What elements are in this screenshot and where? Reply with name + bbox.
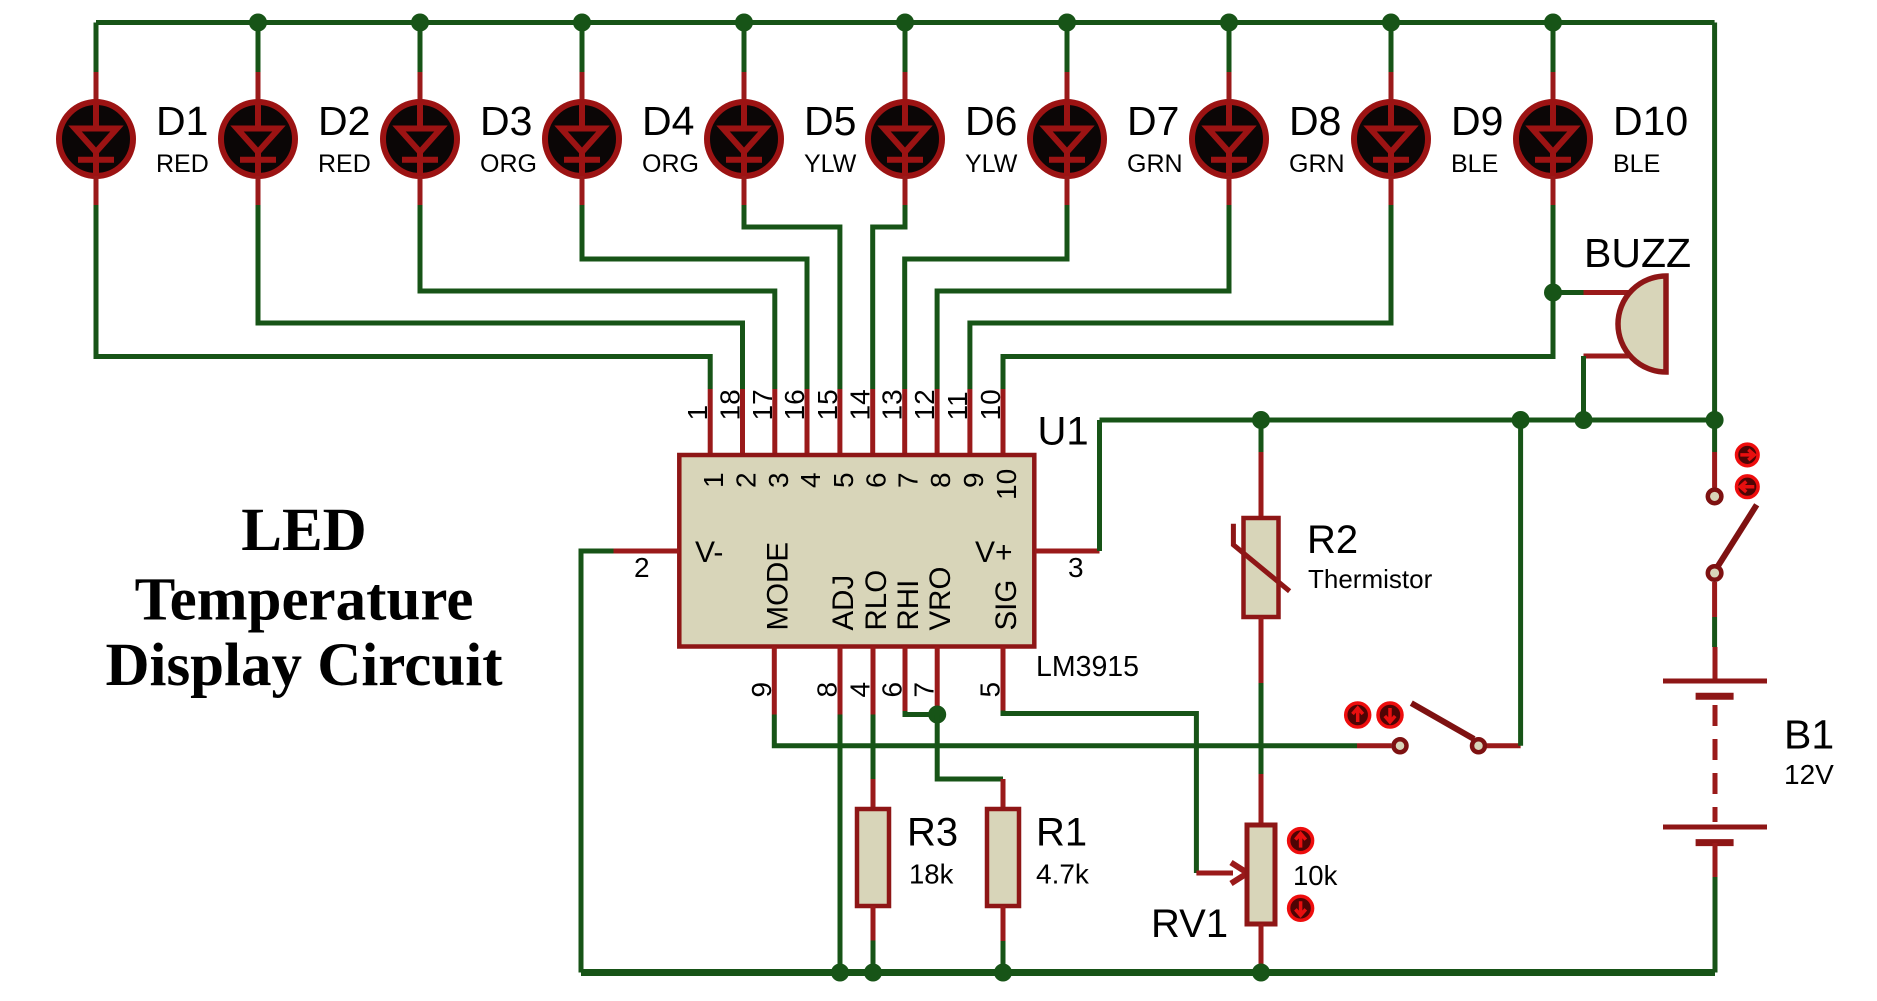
wire buzzer top pin — [1553, 290, 1632, 295]
junction V+ bus / R2 — [1252, 411, 1270, 429]
junction bus / D6 — [896, 14, 914, 32]
pin V+ (3) stub — [1035, 549, 1100, 554]
thermistor R2 — [1233, 518, 1289, 617]
svg-text:9: 9 — [746, 682, 777, 698]
svg-text:LED: LED — [241, 497, 366, 564]
pin RLO (4) stub — [871, 646, 876, 714]
svg-text:12V: 12V — [1784, 759, 1834, 790]
wire R3 to ground rail — [871, 906, 876, 973]
svg-text:RV1: RV1 — [1151, 902, 1228, 946]
wire LED D9 cathode to IC pin — [970, 176, 1391, 456]
RV1 up button — [1289, 829, 1313, 853]
svg-text:LM3915: LM3915 — [1036, 651, 1139, 683]
junction V+ bus / right rail — [1706, 411, 1724, 429]
svg-text:4: 4 — [845, 682, 876, 698]
svg-text:RED: RED — [156, 150, 209, 178]
junction bus / D8 — [1220, 14, 1238, 32]
LED D1 (RED) — [59, 101, 133, 177]
buzzer BUZZ — [1618, 276, 1666, 372]
wire LED D4 anode from bus — [580, 23, 585, 104]
junction RHI-VRO — [928, 706, 946, 724]
svg-text:R3: R3 — [907, 811, 958, 855]
svg-text:RLO: RLO — [860, 570, 893, 631]
wire right rail from top bus — [1712, 23, 1717, 453]
wire V+ bus to R2 — [1259, 420, 1264, 519]
junction bus / D2 — [249, 14, 267, 32]
svg-text:4.7k: 4.7k — [1036, 859, 1090, 890]
svg-text:ORG: ORG — [480, 150, 537, 178]
svg-text:11: 11 — [942, 391, 973, 420]
svg-text:R2: R2 — [1307, 518, 1358, 562]
svg-text:VRO: VRO — [924, 567, 957, 631]
svg-text:V-: V- — [695, 536, 723, 569]
wire LED D6 cathode to IC pin — [873, 176, 905, 456]
junction bus / D3 — [411, 14, 429, 32]
svg-text:10: 10 — [991, 469, 1022, 500]
wire LED D5 cathode to IC pin — [744, 176, 840, 456]
svg-text:14: 14 — [845, 389, 876, 420]
wire SW1 to battery — [1712, 617, 1717, 681]
wire LED D1 anode from bus — [94, 23, 99, 104]
svg-text:12: 12 — [909, 389, 940, 420]
svg-text:1: 1 — [698, 472, 729, 488]
junction bus / D10 — [1544, 14, 1562, 32]
LED D6 (YLW) — [868, 101, 942, 177]
junction V+ bus / switch riser — [1512, 411, 1530, 429]
switch SW2 up button — [1346, 703, 1370, 727]
battery B1 — [1663, 681, 1767, 877]
junction rail / R1 — [994, 964, 1012, 982]
LED D3 (ORG) — [383, 101, 457, 177]
svg-text:D2: D2 — [318, 98, 370, 144]
wire LED D6 anode from bus — [903, 23, 908, 104]
svg-text:10k: 10k — [1293, 860, 1338, 891]
junction rail / R3 — [864, 964, 882, 982]
potentiometer RV1 — [1247, 825, 1275, 924]
wire R2 to RV1 — [1259, 617, 1264, 826]
LED D4 (ORG) — [545, 101, 619, 177]
svg-text:Display Circuit: Display Circuit — [105, 632, 503, 699]
LED D9 (BLE) — [1354, 101, 1428, 177]
LED D5 (YLW) — [707, 101, 781, 177]
svg-text:D8: D8 — [1289, 98, 1341, 144]
svg-text:6: 6 — [861, 472, 892, 488]
svg-text:16: 16 — [779, 389, 810, 420]
wire LED D8 cathode to IC pin — [937, 176, 1229, 456]
junction bus / D9 — [1382, 14, 1400, 32]
LED D7 (GRN) — [1030, 101, 1104, 177]
wire buzzer bottom pin — [1584, 356, 1633, 420]
svg-text:3: 3 — [763, 472, 794, 488]
wire ADJ to ground rail — [838, 715, 843, 973]
svg-text:RED: RED — [318, 150, 371, 178]
junction bus / D5 — [735, 14, 753, 32]
svg-text:D6: D6 — [965, 98, 1017, 144]
junction bus / D4 — [573, 14, 591, 32]
svg-text:BUZZ: BUZZ — [1584, 230, 1691, 276]
svg-text:9: 9 — [958, 472, 989, 488]
svg-text:8: 8 — [812, 682, 843, 698]
wire MODE to switch — [774, 715, 1391, 746]
LED D2 (RED) — [221, 101, 295, 177]
LED D8 (GRN) — [1192, 101, 1266, 177]
wire V+ horizontal bus — [1100, 418, 1715, 423]
switch SW2 (mode select) — [1394, 703, 1486, 752]
wire LED D8 anode from bus — [1227, 23, 1232, 104]
svg-text:18k: 18k — [909, 859, 954, 890]
wire switch SW2 to V+ bus — [1487, 420, 1521, 746]
resistor R1 — [987, 809, 1019, 906]
svg-text:17: 17 — [747, 389, 778, 420]
wire RLO to R3 — [871, 715, 876, 811]
pin SIG (5) stub — [1001, 646, 1006, 714]
wire R1 to ground rail — [1001, 906, 1006, 973]
wire RV1 to ground rail — [1259, 924, 1264, 973]
svg-text:2: 2 — [731, 472, 762, 488]
wire LED D4 cathode to IC pin — [582, 176, 807, 456]
op-amp U1 LM3915 body — [679, 455, 1034, 647]
junction bus / D7 — [1058, 14, 1076, 32]
junction D10 column / buzzer — [1544, 284, 1562, 302]
pin ADJ (8) stub — [838, 646, 843, 714]
wire LED D10 anode from bus — [1551, 23, 1556, 104]
wire LED D2 cathode to IC pin — [258, 176, 743, 456]
wire LED D3 anode from bus — [418, 23, 423, 104]
wire VRO node to R1 — [937, 715, 1003, 811]
wire LED D10 cathode to IC pin — [1003, 176, 1553, 456]
svg-text:YLW: YLW — [965, 150, 1018, 178]
svg-text:10: 10 — [975, 389, 1006, 420]
pin VRO (7) stub — [935, 646, 940, 714]
svg-text:GRN: GRN — [1289, 150, 1345, 178]
wire V- to ground rail — [581, 551, 614, 973]
svg-text:ADJ: ADJ — [827, 575, 860, 631]
svg-text:7: 7 — [893, 472, 924, 488]
svg-text:D5: D5 — [804, 98, 856, 144]
svg-text:15: 15 — [812, 389, 843, 420]
LED D10 (BLE) — [1516, 101, 1590, 177]
svg-text:D4: D4 — [642, 98, 694, 144]
switch SW1 left button — [1737, 476, 1759, 498]
svg-text:GRN: GRN — [1127, 150, 1183, 178]
svg-text:D1: D1 — [156, 98, 208, 144]
svg-text:8: 8 — [925, 472, 956, 488]
svg-text:4: 4 — [795, 472, 826, 488]
svg-text:Temperature: Temperature — [135, 567, 474, 634]
title text — [105, 497, 503, 699]
svg-text:D9: D9 — [1451, 98, 1503, 144]
svg-text:BLE: BLE — [1613, 150, 1660, 178]
svg-text:V+: V+ — [975, 536, 1013, 569]
svg-text:YLW: YLW — [804, 150, 857, 178]
svg-text:3: 3 — [1068, 552, 1084, 583]
pin V- (2) stub — [581, 549, 679, 554]
svg-text:BLE: BLE — [1451, 150, 1498, 178]
wire V+ riser — [1097, 420, 1102, 551]
svg-text:D3: D3 — [480, 98, 532, 144]
switch SW2 down button — [1378, 703, 1402, 727]
svg-text:ORG: ORG — [642, 150, 699, 178]
svg-text:B1: B1 — [1784, 712, 1834, 758]
pin RHI (6) stub — [903, 646, 908, 714]
svg-text:SIG: SIG — [990, 580, 1023, 631]
junction rail / RV1 — [1252, 964, 1270, 982]
wire top positive bus — [96, 20, 1715, 25]
svg-text:R1: R1 — [1036, 811, 1087, 855]
junction rail / ADJ — [831, 964, 849, 982]
RV1 down button — [1289, 896, 1313, 920]
wire LED D5 anode from bus — [742, 23, 747, 104]
wire LED D2 anode from bus — [256, 23, 261, 104]
wire RHI to VRO node — [905, 646, 937, 714]
svg-text:2: 2 — [634, 552, 650, 583]
wire SIG to RV1 wiper — [1003, 646, 1248, 883]
svg-text:7: 7 — [909, 682, 940, 698]
svg-text:U1: U1 — [1038, 410, 1089, 454]
wire LED D1 cathode to IC pin — [96, 176, 710, 456]
svg-text:1: 1 — [682, 405, 713, 421]
svg-text:D7: D7 — [1127, 98, 1179, 144]
wire LED D9 anode from bus — [1389, 23, 1394, 104]
pin MODE (9) stub — [772, 646, 777, 714]
svg-text:18: 18 — [715, 389, 746, 420]
svg-text:MODE: MODE — [761, 542, 794, 631]
wire LED D7 cathode to IC pin — [905, 176, 1067, 456]
switch SW1 right button — [1737, 444, 1759, 466]
resistor R3 — [857, 809, 889, 906]
switch SW1 (power) — [1708, 452, 1757, 617]
svg-text:13: 13 — [877, 389, 908, 420]
wire LED D3 cathode to IC pin — [420, 176, 775, 456]
svg-text:5: 5 — [828, 472, 859, 488]
svg-text:Thermistor: Thermistor — [1308, 564, 1433, 594]
junction V+ bus / buzzer return — [1575, 411, 1593, 429]
wire LED D7 anode from bus — [1065, 23, 1070, 104]
svg-text:D10: D10 — [1613, 98, 1688, 144]
svg-text:RHI: RHI — [892, 580, 925, 631]
